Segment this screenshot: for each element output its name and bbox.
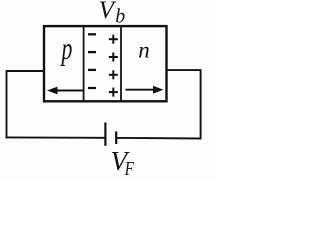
plus charge row 1 xyxy=(109,35,118,44)
plus charge row 4 xyxy=(109,88,118,97)
svg-text:F: F xyxy=(124,157,134,179)
wire right to n side xyxy=(166,69,202,71)
svg-text:b: b xyxy=(115,6,125,28)
wire left vertical xyxy=(6,70,8,138)
minus charge row 4 xyxy=(88,87,96,89)
arrow in p region (pointing left) xyxy=(47,87,84,95)
label Vb xyxy=(99,0,126,28)
minus charge row 3 xyxy=(88,69,96,71)
label VF xyxy=(111,146,135,180)
wire battery to bottom right xyxy=(117,137,202,140)
minus charge row 2 xyxy=(88,51,96,53)
battery VF long plate xyxy=(104,123,106,146)
arrow in n region (pointing right) xyxy=(126,86,164,94)
svg-text:n: n xyxy=(138,38,150,63)
wire from p side to left xyxy=(7,70,45,72)
plus charge row 3 xyxy=(109,70,118,79)
wire bottom left to battery xyxy=(6,136,105,138)
diode body outer box xyxy=(44,26,167,101)
svg-text:V: V xyxy=(99,0,117,24)
depletion region left boundary xyxy=(83,26,85,101)
plus charge row 2 xyxy=(109,53,118,62)
svg-text:p: p xyxy=(60,31,72,66)
minus charge row 1 xyxy=(88,33,96,35)
depletion region right boundary xyxy=(120,26,122,101)
wire right vertical xyxy=(200,69,202,139)
battery VF short plate xyxy=(115,131,117,144)
